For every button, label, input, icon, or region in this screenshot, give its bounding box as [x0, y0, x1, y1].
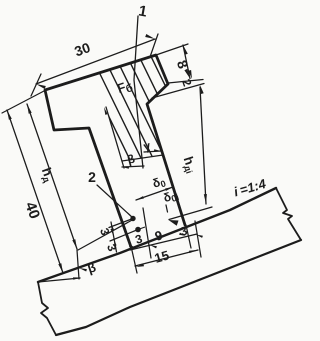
dim 3-3 tick1 [109, 219, 133, 228]
dim 2 arrow lower [200, 85, 204, 94]
dim 8 bottom arrow [184, 69, 190, 79]
dim 3-3 tick2 [110, 230, 138, 242]
dim h-left ref drop [77, 250, 79, 279]
dim 40 top arrow [7, 110, 12, 120]
T-profile outline [45, 55, 185, 247]
dim 3-3 arrow1 [112, 224, 115, 231]
dim 8 line [183, 45, 190, 79]
chain tick 4 [196, 235, 203, 238]
dim h-left ref line [78, 219, 134, 250]
dim 3-3 stem [111, 222, 117, 252]
plate right edge with break [276, 188, 301, 240]
layer dot lower [135, 227, 141, 233]
angle gamma bar [144, 151, 161, 152]
dim 30 line [36, 39, 155, 84]
plate top edge (inclined surface) [38, 188, 276, 282]
chain extension 3 [186, 225, 191, 248]
dim 15 left arrow [136, 264, 144, 267]
dim 3-3 arrow2 [111, 229, 114, 236]
groove left wall line [106, 107, 124, 168]
chain dim line [130, 234, 197, 250]
dim 30 left extension [31, 74, 41, 96]
dim h-left top arrow [27, 104, 32, 114]
chain tick 1 [129, 245, 136, 248]
dim 15 right arrow [189, 250, 197, 253]
dim 3-3 arrow4 [113, 244, 116, 251]
dim 8 top arrow [183, 45, 188, 55]
dim 30 left arrow [36, 84, 46, 89]
dim 30 right extension [150, 34, 158, 57]
dim 2 arrow upper [188, 70, 192, 79]
dim 3-3 arrow3 [114, 239, 117, 246]
plate tip tick arrow [79, 268, 87, 272]
chain extension 2 [143, 208, 151, 258]
dim 8 extension top [156, 44, 188, 55]
dim 40 bottom arrow [58, 263, 63, 273]
deposit bottom line [122, 155, 163, 161]
angle gamma arrow [154, 149, 161, 151]
dim 8 extension bottom [168, 80, 203, 84]
angle beta arrow [122, 167, 129, 169]
dim 40 extension [2, 91, 44, 113]
dim delta0i arrow [169, 220, 179, 226]
chain tick 3 [179, 233, 186, 236]
dim h-right bottom arrow [204, 194, 207, 204]
leader line 2 [97, 185, 133, 218]
dim 30 right arrow [145, 34, 155, 39]
hatched weld deposit area F [55, 0, 320, 186]
chain tick 2 [150, 245, 157, 248]
dim 40 line [7, 110, 63, 273]
plate left edge with break [38, 282, 56, 335]
groove wall top arrow [104, 107, 108, 115]
dim delta0i hook [166, 205, 168, 212]
chain extension 4 [195, 221, 201, 257]
dim 15 line [135, 250, 198, 266]
svg-text:2: 2 [88, 169, 96, 185]
dim h-right line [200, 87, 206, 204]
dim delta0i leader [169, 207, 212, 220]
plate tip ref line [38, 278, 80, 282]
dim delta0 line [136, 187, 173, 200]
leader line 1 [134, 16, 143, 168]
plate tip ref arrow [73, 277, 81, 279]
angle beta bar [122, 166, 144, 167]
dim 2 extension [152, 84, 204, 99]
chain extension 1 [131, 246, 137, 273]
dim h-left line [27, 104, 77, 249]
plate bottom edge [56, 240, 301, 335]
layer dot upper [130, 216, 135, 221]
dim h-left bottom arrow [72, 239, 77, 249]
dim delta0 right arrow [165, 187, 173, 191]
dim delta0 left arrow [136, 196, 144, 200]
